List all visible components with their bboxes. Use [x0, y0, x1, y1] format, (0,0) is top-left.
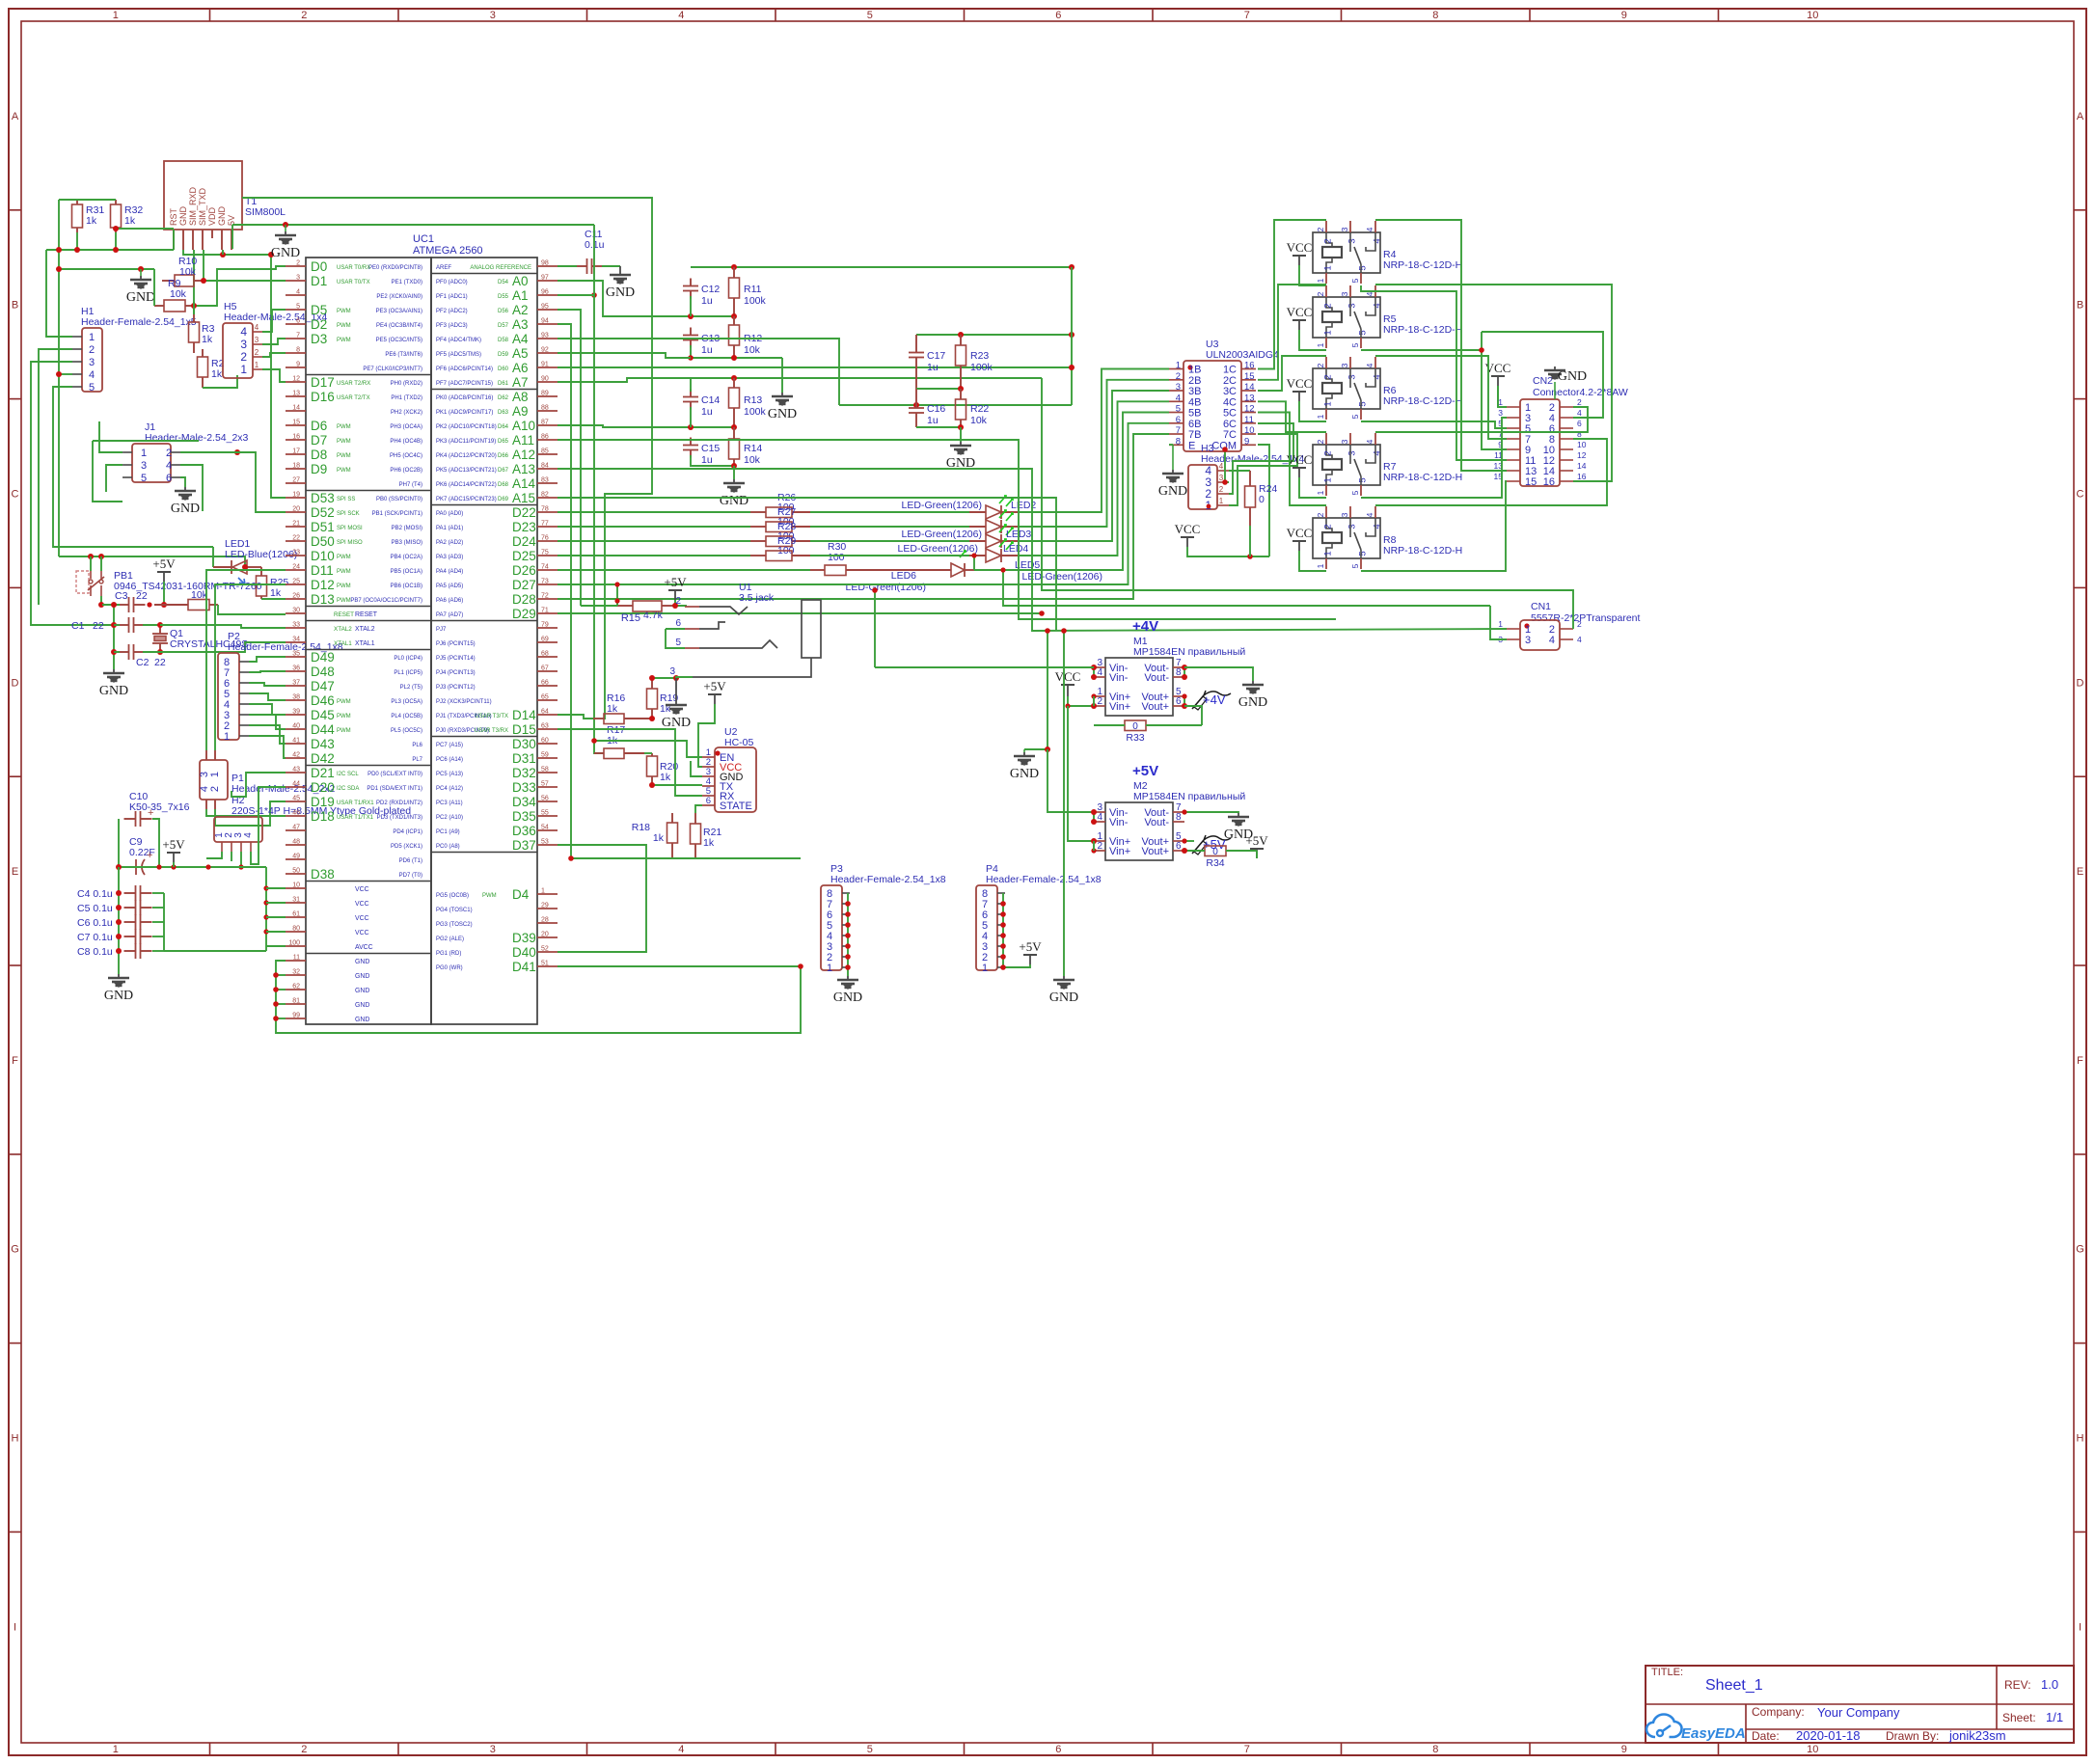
svg-text:PB6 (OC1B): PB6 (OC1B): [391, 583, 422, 589]
svg-text:+5V: +5V: [703, 679, 726, 693]
svg-text:PG2 (ALE): PG2 (ALE): [436, 936, 464, 942]
svg-text:8: 8: [1577, 429, 1582, 439]
svg-text:RST: RST: [169, 207, 178, 226]
svg-text:3: 3: [1340, 512, 1349, 517]
svg-text:Header-Female-2.54_1x8: Header-Female-2.54_1x8: [830, 874, 946, 885]
svg-text:4B: 4B: [1188, 396, 1201, 408]
svg-text:USAR T0/TX: USAR T0/TX: [337, 280, 370, 285]
pin 21 PB2 (MOSI): [286, 526, 306, 528]
svg-text:Vout-: Vout-: [1144, 817, 1169, 828]
svg-text:PB2 (MOSI): PB2 (MOSI): [392, 526, 422, 531]
ground: [781, 393, 783, 396]
wire: [675, 600, 687, 606]
svg-text:1: 1: [1176, 361, 1181, 371]
pin 27 PH7 (T4): [286, 482, 306, 484]
wire: [164, 950, 266, 952]
soldering iron +5V: [1192, 835, 1231, 854]
resistor 10k: [154, 604, 188, 606]
svg-text:+5V: +5V: [664, 575, 687, 589]
resistor R22: [960, 389, 962, 399]
svg-text:73: 73: [541, 579, 549, 585]
svg-text:D8: D8: [311, 448, 327, 462]
svg-text:16: 16: [1244, 361, 1255, 371]
wire: [1047, 749, 1094, 812]
svg-text:PC2 (A10): PC2 (A10): [436, 815, 463, 821]
svg-text:44: 44: [292, 781, 300, 788]
svg-text:PE2 (XCK0/AIN0): PE2 (XCK0/AIN0): [376, 294, 422, 300]
wire: [212, 547, 214, 567]
svg-text:6: 6: [675, 618, 681, 629]
resistor R31: [76, 200, 78, 204]
svg-text:C15: C15: [701, 443, 720, 454]
wire: [114, 651, 120, 653]
svg-text:1: 1: [255, 361, 259, 369]
capacitor C14: [683, 396, 698, 398]
svg-text:ANALOG REFERENCE: ANALOG REFERENCE: [470, 265, 531, 271]
svg-text:2: 2: [1323, 374, 1334, 379]
svg-text:PWM: PWM: [337, 583, 351, 589]
svg-text:2: 2: [1316, 439, 1325, 444]
resistor R24: [1249, 471, 1251, 486]
svg-text:PL7: PL7: [412, 757, 422, 763]
pin 7 PE5 (OC3C/INT5): [286, 338, 306, 339]
svg-text:C5 0.1u: C5 0.1u: [77, 903, 113, 914]
svg-text:D61: D61: [498, 381, 509, 387]
pin 75 PA3 (AD3): [537, 555, 558, 556]
svg-text:Header-Female-2.54_1x8: Header-Female-2.54_1x8: [986, 874, 1102, 885]
svg-text:1: 1: [89, 332, 95, 343]
svg-text:PA3 (AD3): PA3 (AD3): [436, 555, 463, 560]
svg-text:3: 3: [1176, 382, 1181, 393]
svg-text:PF4 (ADC4/TMK): PF4 (ADC4/TMK): [436, 338, 481, 343]
svg-text:D22: D22: [512, 505, 536, 520]
svg-text:PA0 (AD0): PA0 (AD0): [436, 511, 463, 517]
svg-text:4: 4: [1365, 512, 1374, 517]
svg-text:PL0 (ICP4): PL0 (ICP4): [394, 656, 422, 662]
wire: [215, 801, 286, 826]
wire: [1258, 285, 1326, 380]
wire: [249, 715, 286, 729]
pin 3 PE1 (TXD0): [286, 280, 306, 282]
wire: [46, 250, 72, 337]
svg-text:PWM: PWM: [337, 338, 351, 343]
svg-text:21: 21: [292, 521, 300, 528]
wire: [960, 427, 962, 442]
svg-text:33: 33: [292, 622, 300, 629]
pin 31 VCC: [286, 902, 306, 904]
svg-text:CN2: CN2: [1533, 375, 1553, 387]
wire: [1375, 285, 1612, 481]
svg-text:6: 6: [1055, 1744, 1061, 1755]
svg-text:15: 15: [1525, 476, 1537, 488]
wire: [1299, 330, 1326, 350]
svg-text:D66: D66: [498, 453, 509, 459]
svg-text:3: 3: [1347, 238, 1358, 243]
svg-text:LED6: LED6: [891, 570, 916, 582]
svg-text:1k: 1k: [703, 837, 715, 849]
svg-text:13: 13: [1244, 393, 1255, 403]
wire: [276, 961, 801, 1033]
wire: [231, 225, 233, 249]
svg-text:10: 10: [1244, 425, 1255, 436]
svg-text:Vin-: Vin-: [1109, 817, 1129, 828]
wire: [231, 773, 286, 797]
svg-text:31: 31: [292, 897, 300, 904]
svg-text:D7: D7: [311, 433, 327, 448]
svg-text:USAR T1/RX1: USAR T1/RX1: [337, 801, 374, 806]
svg-text:4: 4: [1373, 450, 1383, 455]
ground: [1252, 681, 1254, 685]
svg-text:PD0 (SCL/EXT INT0): PD0 (SCL/EXT INT0): [367, 772, 422, 777]
svg-text:69: 69: [541, 637, 549, 643]
svg-text:A15: A15: [512, 491, 535, 505]
pin 17 PH5 (OC4C): [286, 453, 306, 455]
svg-text:H: H: [2077, 1433, 2084, 1445]
svg-text:R14: R14: [744, 443, 762, 454]
svg-text:5: 5: [296, 304, 300, 311]
svg-text:GND: GND: [126, 290, 155, 305]
wire: [1047, 631, 1048, 749]
svg-text:0: 0: [1259, 494, 1265, 505]
svg-text:PL2 (T5): PL2 (T5): [400, 685, 422, 691]
pin 38 PL3 (OC5A): [286, 699, 306, 701]
pin 43 PD0 (SCL/EXT INT0): [286, 772, 306, 773]
pin 62 GND: [286, 989, 306, 991]
svg-text:+5V: +5V: [1245, 833, 1268, 848]
svg-text:D47: D47: [311, 679, 335, 693]
svg-text:D33: D33: [512, 780, 536, 795]
svg-text:75: 75: [541, 550, 549, 556]
svg-text:D62: D62: [498, 395, 509, 401]
wire: [100, 596, 102, 605]
svg-text:38: 38: [292, 694, 300, 701]
svg-text:76: 76: [541, 535, 549, 542]
wire: [93, 440, 199, 442]
wire: [266, 945, 286, 947]
svg-text:D34: D34: [512, 795, 536, 809]
pin 65 PJ2 (XCK3/PCINT11): [537, 699, 558, 701]
svg-text:VCC: VCC: [355, 915, 369, 922]
pin 95 PF2 (ADC2): [537, 309, 558, 311]
soldering iron +4V: [1192, 691, 1231, 709]
pin 8 PE6 (T3/INT6): [286, 352, 306, 354]
pin 46 PD3 (TXD1/INT3): [286, 815, 306, 817]
svg-text:4: 4: [1219, 462, 1224, 471]
svg-text:3.5 jack: 3.5 jack: [739, 592, 775, 604]
svg-text:E: E: [12, 866, 18, 878]
svg-text:6: 6: [166, 473, 172, 484]
svg-text:VCC: VCC: [1055, 669, 1081, 684]
svg-text:PE1 (TXD0): PE1 (TXD0): [392, 280, 422, 285]
svg-text:7: 7: [296, 333, 300, 339]
svg-text:2: 2: [1316, 227, 1325, 231]
svg-text:10: 10: [292, 882, 300, 889]
svg-text:14: 14: [1577, 461, 1587, 471]
pin 77 PA1 (AD1): [537, 526, 558, 528]
svg-text:PWM: PWM: [337, 309, 351, 314]
crystal Q1: [152, 633, 168, 635]
svg-text:SIM_TXD: SIM_TXD: [198, 187, 207, 226]
pin 40 PL5 (OC5C): [286, 728, 306, 730]
svg-text:Header-Female-2.54_1x5: Header-Female-2.54_1x5: [81, 316, 197, 328]
svg-text:1: 1: [1316, 563, 1325, 568]
wire: [276, 974, 286, 976]
svg-text:7: 7: [1244, 1744, 1250, 1755]
svg-text:GND: GND: [271, 246, 300, 260]
pin 50 PD7 (T0): [286, 873, 306, 875]
wire: [276, 989, 286, 991]
pin 69 PJ6 (PCINT15): [537, 641, 558, 643]
svg-text:50: 50: [292, 868, 300, 875]
wire: [203, 250, 204, 281]
svg-text:D40: D40: [512, 945, 536, 960]
wire: [1184, 667, 1185, 677]
wire: [249, 683, 286, 686]
svg-text:C7 0.1u: C7 0.1u: [77, 932, 113, 943]
svg-text:1k: 1k: [653, 832, 665, 844]
LED LED5 LED-Green(1206): [986, 549, 1001, 562]
svg-text:D64: D64: [498, 424, 509, 430]
wire: [1068, 840, 1094, 842]
svg-text:84: 84: [541, 463, 549, 470]
svg-text:PJ2 (XCK3/PCINT11): PJ2 (XCK3/PCINT11): [436, 699, 492, 705]
svg-text:MP1584EN правильный: MP1584EN правильный: [1133, 791, 1245, 802]
svg-text:5557R-2*2PTransparent: 5557R-2*2PTransparent: [1531, 612, 1641, 624]
wire: [265, 867, 267, 951]
svg-text:77: 77: [541, 521, 549, 528]
wire: [100, 556, 102, 571]
svg-text:1B: 1B: [1188, 365, 1201, 376]
svg-text:8: 8: [296, 347, 300, 354]
svg-text:46: 46: [292, 810, 300, 817]
svg-text:XTAL2: XTAL2: [355, 626, 375, 633]
svg-text:7C: 7C: [1223, 429, 1237, 441]
pin 67 PJ4 (PCINT13): [537, 670, 558, 672]
wire: [973, 556, 975, 570]
svg-text:PF0 (ADC0): PF0 (ADC0): [436, 280, 468, 285]
wire: [76, 232, 78, 250]
wire: [558, 498, 1056, 631]
wire: [242, 198, 652, 719]
wire: [232, 224, 594, 226]
svg-text:1: 1: [982, 963, 988, 974]
ground: [847, 976, 849, 980]
wire: [558, 294, 594, 296]
svg-text:UC1: UC1: [413, 233, 434, 245]
svg-text:XTAL1: XTAL1: [355, 640, 375, 647]
svg-text:D69: D69: [498, 497, 509, 502]
svg-text:D32: D32: [512, 766, 536, 780]
svg-text:NRP-18-C-12D-H: NRP-18-C-12D-H: [1383, 324, 1462, 336]
svg-text:SIM_RXD: SIM_RXD: [188, 186, 198, 226]
svg-text:1: 1: [541, 888, 545, 895]
pin 39 PL4 (OC5B): [286, 714, 306, 716]
resistor R9: [164, 300, 185, 312]
svg-text:LED-Green(1206): LED-Green(1206): [846, 582, 926, 593]
svg-text:I2C SCL: I2C SCL: [337, 772, 359, 777]
wire: [180, 477, 185, 487]
svg-text:2: 2: [1323, 303, 1334, 308]
svg-text:C8 0.1u: C8 0.1u: [77, 946, 113, 958]
pin 87 PK2 (ADC10/PCINT18): [537, 424, 558, 426]
svg-text:D57: D57: [498, 323, 509, 329]
svg-text:Sheet_1: Sheet_1: [1705, 1677, 1763, 1694]
wire: [160, 642, 286, 652]
svg-text:5: 5: [1350, 490, 1360, 495]
svg-text:REV:: REV:: [2004, 1678, 2031, 1692]
wire: [1375, 220, 1507, 471]
svg-text:D52: D52: [311, 505, 335, 520]
wire: [59, 268, 154, 270]
svg-text:PWM: PWM: [337, 714, 351, 719]
svg-text:D60: D60: [498, 366, 509, 372]
svg-text:23: 23: [292, 550, 300, 556]
svg-text:H: H: [12, 1433, 19, 1445]
ground: [113, 669, 115, 673]
svg-text:4: 4: [243, 832, 254, 838]
svg-text:PWM: PWM: [337, 699, 351, 705]
svg-text:1u: 1u: [701, 406, 713, 418]
ground: [184, 487, 186, 491]
wire: [558, 584, 617, 606]
svg-text:2: 2: [301, 10, 307, 21]
wire: [666, 628, 685, 630]
svg-text:10k: 10k: [191, 589, 208, 601]
svg-text:PB4 (OC2A): PB4 (OC2A): [391, 555, 422, 560]
wire: [193, 250, 195, 314]
pin 85 PK4 (ADC12/PCINT20): [537, 453, 558, 455]
capacitor C17: [909, 352, 924, 354]
svg-text:R33: R33: [1126, 732, 1144, 744]
svg-text:PB5 (OC1A): PB5 (OC1A): [391, 569, 422, 575]
svg-text:93: 93: [541, 333, 549, 339]
svg-text:D13: D13: [311, 592, 335, 607]
wire: [204, 280, 286, 282]
svg-text:VCC: VCC: [355, 930, 369, 936]
svg-text:A10: A10: [512, 419, 535, 433]
svg-text:D68: D68: [498, 482, 509, 488]
wire: [698, 704, 715, 767]
wire: [839, 404, 1072, 406]
svg-text:16: 16: [292, 434, 300, 441]
wire: [874, 590, 876, 667]
svg-text:PA6 (AD6): PA6 (AD6): [436, 598, 463, 604]
pin 25 PB6 (OC1B): [286, 583, 306, 585]
wire: [39, 349, 72, 605]
svg-text:PD4 (ICP1): PD4 (ICP1): [393, 829, 422, 835]
wire: [163, 893, 165, 951]
resistor R18: [671, 813, 673, 823]
wire: [114, 624, 120, 626]
svg-text:PL4 (OC5B): PL4 (OC5B): [391, 714, 422, 719]
svg-text:36: 36: [292, 665, 300, 672]
svg-text:NRP-18-C-12D-H: NRP-18-C-12D-H: [1383, 395, 1462, 407]
pin 48 PD5 (XCK1): [286, 844, 306, 846]
svg-text:D29: D29: [512, 607, 536, 621]
svg-text:2: 2: [1176, 371, 1181, 382]
svg-text:3: 3: [1498, 408, 1503, 418]
wire: [558, 425, 734, 427]
pin 32 GND: [286, 974, 306, 976]
pin 13 PH1 (TXD2): [286, 395, 306, 397]
wire: [1497, 386, 1499, 407]
svg-text:A6: A6: [512, 361, 529, 375]
svg-text:3: 3: [669, 666, 675, 677]
wire: [916, 388, 961, 390]
wire: [180, 465, 203, 511]
svg-text:6: 6: [1176, 415, 1181, 425]
svg-text:D63: D63: [498, 410, 509, 416]
wire: [1024, 964, 1030, 967]
svg-text:C4 0.1u: C4 0.1u: [77, 888, 113, 900]
wire: [180, 452, 286, 512]
svg-text:GND: GND: [606, 285, 635, 300]
svg-text:A9: A9: [512, 404, 529, 419]
svg-text:D14: D14: [512, 708, 536, 722]
svg-text:10k: 10k: [744, 344, 761, 356]
wire: [1375, 407, 1588, 432]
svg-text:3: 3: [1347, 450, 1358, 455]
svg-text:4: 4: [1577, 635, 1582, 644]
svg-text:PD6 (T1): PD6 (T1): [399, 858, 422, 864]
ground: [285, 225, 286, 231]
wire: [558, 423, 1169, 584]
svg-text:Date:: Date:: [1752, 1729, 1780, 1743]
svg-text:100k: 100k: [744, 295, 767, 307]
svg-text:65: 65: [541, 694, 549, 701]
svg-text:D41: D41: [512, 960, 536, 974]
svg-text:5: 5: [1358, 330, 1369, 335]
wire: [1361, 421, 1507, 428]
svg-text:5: 5: [1176, 404, 1181, 415]
svg-text:+: +: [147, 850, 152, 861]
svg-text:A2: A2: [512, 303, 529, 317]
relay R5 NRP-18-C-12D-H: [1313, 297, 1380, 338]
svg-text:5: 5: [1350, 563, 1360, 568]
svg-text:VCC: VCC: [1287, 240, 1313, 255]
svg-text:C: C: [12, 489, 19, 501]
svg-text:22: 22: [154, 657, 166, 668]
svg-text:PK5 (ADC13/PCINT21): PK5 (ADC13/PCINT21): [436, 468, 497, 474]
resistor R2: [202, 349, 204, 357]
wire: [1063, 631, 1065, 976]
svg-text:1u: 1u: [701, 454, 713, 466]
ground: [1172, 445, 1174, 470]
wire: [116, 228, 174, 230]
svg-text:D38: D38: [311, 867, 335, 882]
svg-text:10k: 10k: [179, 266, 197, 278]
svg-text:1: 1: [1323, 551, 1334, 556]
svg-text:USAR T0/RX: USAR T0/RX: [337, 265, 370, 271]
svg-text:GND: GND: [1010, 767, 1039, 781]
svg-text:8: 8: [1176, 667, 1182, 678]
svg-text:C16: C16: [927, 403, 945, 415]
svg-text:4: 4: [1176, 393, 1181, 403]
pin 15 PH3 (OC4A): [286, 424, 306, 426]
svg-text:26: 26: [292, 593, 300, 600]
resistor R19: [651, 678, 653, 689]
svg-text:GND: GND: [178, 206, 188, 227]
svg-text:GND: GND: [1558, 369, 1587, 384]
svg-text:1: 1: [113, 10, 119, 21]
svg-text:D48: D48: [311, 665, 335, 679]
svg-text:I: I: [14, 1621, 16, 1633]
svg-text:4: 4: [678, 1744, 684, 1755]
svg-text:4: 4: [255, 323, 259, 332]
svg-text:D5: D5: [311, 303, 327, 317]
svg-text:VCC: VCC: [1175, 522, 1201, 536]
svg-text:4C: 4C: [1223, 396, 1237, 408]
